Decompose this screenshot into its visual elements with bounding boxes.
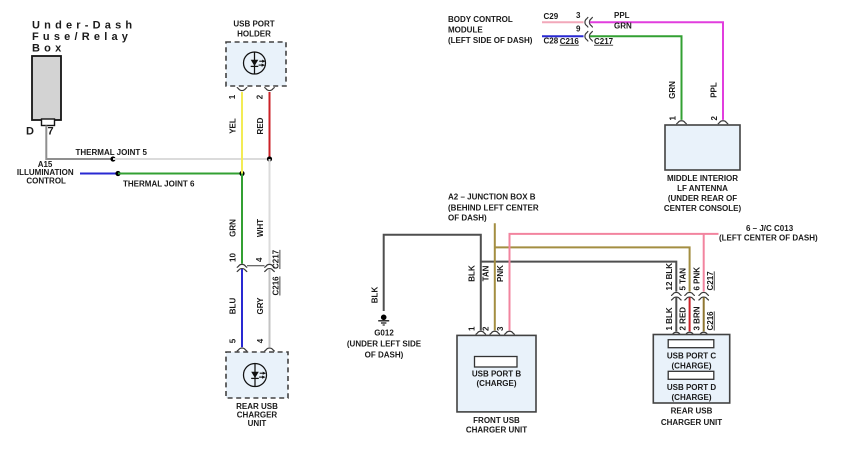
svg-text:12 BLK: 12 BLK <box>665 263 674 291</box>
svg-text:3: 3 <box>496 326 505 331</box>
svg-text:C216: C216 <box>272 276 281 296</box>
svg-text:(UNDER LEFT SIDE: (UNDER LEFT SIDE <box>347 340 422 349</box>
ground G012 <box>378 315 389 326</box>
node blue-green junction <box>115 171 120 176</box>
connector C217 terminal row2 <box>589 31 592 41</box>
node THERMAL JOINT 6 <box>123 171 245 189</box>
connector C216 terminal on blue wire <box>237 269 247 272</box>
wire PNK from J/C C013 <box>510 234 719 331</box>
label USB PORT B (CHARGE) <box>472 370 522 389</box>
pin 1 entry terminal antenna <box>677 121 687 124</box>
wire BLK branch to rear unit <box>481 262 677 292</box>
wire from fuse box D7 to thermal joint 5 (gray) <box>46 126 113 160</box>
connector C217 terminal on PNK <box>699 292 709 295</box>
svg-text:LF ANTENNA: LF ANTENNA <box>677 184 728 193</box>
svg-text:GRY: GRY <box>256 297 265 315</box>
svg-text:(BEHIND LEFT CENTER: (BEHIND LEFT CENTER <box>448 203 539 212</box>
svg-text:10: 10 <box>228 253 237 262</box>
svg-text:2: 2 <box>256 94 265 99</box>
pin 3 entry terminal rear unit <box>699 332 709 335</box>
svg-text:6 PNK: 6 PNK <box>693 267 702 291</box>
connector C216 terminal row2 <box>585 31 588 41</box>
svg-text:(CHARGE): (CHARGE) <box>477 379 517 388</box>
svg-text:THERMAL JOINT 5: THERMAL JOINT 5 <box>76 148 148 157</box>
svg-text:C216: C216 <box>706 311 715 331</box>
label 6 J/C C013 <box>719 224 818 243</box>
svg-text:BLU: BLU <box>229 298 238 315</box>
svg-text:4: 4 <box>256 338 265 343</box>
svg-text:CHARGER UNIT: CHARGER UNIT <box>661 418 722 427</box>
front USB charger unit box <box>457 335 536 412</box>
svg-text:4: 4 <box>255 257 264 262</box>
USB port B symbol <box>475 357 518 368</box>
svg-text:(UNDER REAR OF: (UNDER REAR OF <box>668 194 737 203</box>
svg-text:2 RED: 2 RED <box>678 307 687 331</box>
svg-text:1: 1 <box>467 326 476 331</box>
svg-text:1: 1 <box>228 94 237 99</box>
svg-text:3: 3 <box>576 11 581 20</box>
svg-text:GRN: GRN <box>229 219 238 237</box>
label USB PORT HOLDER <box>233 20 274 39</box>
svg-text:USB PORT C: USB PORT C <box>667 351 717 360</box>
wire TAN branch to rear unit <box>495 247 690 291</box>
svg-text:(CHARGE): (CHARGE) <box>672 393 712 402</box>
svg-text:GRN: GRN <box>614 22 632 31</box>
wire PNK branch to rear unit <box>703 234 705 292</box>
svg-text:C216: C216 <box>560 37 580 46</box>
svg-text:3 BRN: 3 BRN <box>693 306 702 330</box>
svg-text:YEL: YEL <box>229 118 238 134</box>
svg-text:C217: C217 <box>706 271 715 291</box>
wire TAN from A2 junction box B <box>494 223 496 330</box>
label REAR USB CHARGER UNIT (left) <box>236 402 278 428</box>
USB port D symbol <box>668 371 714 379</box>
connector D7 of fuse box <box>26 119 55 138</box>
svg-text:7: 7 <box>48 126 54 138</box>
USB port C symbol <box>668 340 714 348</box>
wire BLU vertical to rear USB charger unit <box>241 269 243 347</box>
svg-text:Under-Dash: Under-Dash <box>32 19 136 31</box>
wire blue from BCM C28 <box>542 35 584 37</box>
pin 3 entry terminal front unit <box>505 331 515 334</box>
svg-text:C217: C217 <box>594 37 614 46</box>
svg-text:USB PORT B: USB PORT B <box>472 370 522 379</box>
svg-text:A2 – JUNCTION BOX B: A2 – JUNCTION BOX B <box>448 193 536 202</box>
wire YEL vertical <box>241 92 243 174</box>
connector C217 terminal on TAN <box>685 292 695 295</box>
svg-text:CHARGER UNIT: CHARGER UNIT <box>466 425 527 434</box>
LED symbol in rear USB charger unit <box>244 364 267 387</box>
svg-text:Box: Box <box>32 43 65 55</box>
wire BLK from ground G012 to front unit and rear unit <box>384 235 481 331</box>
node red wire to white wire <box>267 156 272 161</box>
svg-text:OF DASH): OF DASH) <box>365 351 404 360</box>
connector C217 terminal on BLK <box>672 292 682 295</box>
wire BRN lower to rear unit <box>703 298 705 332</box>
connector C216 terminal on RED <box>685 297 695 300</box>
pin 5 entry terminal <box>237 348 247 351</box>
node THERMAL JOINT 5 <box>76 148 148 162</box>
svg-text:5: 5 <box>229 338 238 343</box>
svg-text:1 BLK: 1 BLK <box>665 307 674 330</box>
label REAR USB CHARGER UNIT (right) <box>661 407 722 428</box>
svg-text:D: D <box>26 126 34 138</box>
label MIDDLE INTERIOR LF ANTENNA <box>664 174 742 213</box>
svg-text:BLK: BLK <box>468 265 477 282</box>
label USB PORT C (CHARGE) <box>667 351 717 370</box>
wire GRN vertical down to C217 <box>241 174 243 264</box>
svg-text:PPL: PPL <box>710 82 719 98</box>
rear USB charger unit (right) box <box>653 335 729 404</box>
pin 1 exit terminal of USB port holder <box>237 88 247 91</box>
svg-text:(CHARGE): (CHARGE) <box>672 361 712 370</box>
svg-text:Fuse/Relay: Fuse/Relay <box>32 31 132 43</box>
svg-text:C29: C29 <box>544 12 559 21</box>
svg-text:6 – J/C C013: 6 – J/C C013 <box>746 224 794 233</box>
svg-text:(LEFT CENTER OF DASH): (LEFT CENTER OF DASH) <box>719 234 818 243</box>
wire pink from BCM C29 <box>542 21 584 23</box>
USB port holder box <box>226 42 286 86</box>
connector C217 terminal on green wire <box>237 264 247 267</box>
svg-text:PPL: PPL <box>614 11 630 20</box>
svg-text:WHT: WHT <box>256 219 265 237</box>
svg-text:PNK: PNK <box>496 265 505 282</box>
wire RED vertical <box>269 92 271 158</box>
pin 1 entry terminal front unit <box>476 331 486 334</box>
under-dash fuse/relay box <box>32 56 61 120</box>
svg-text:BODY CONTROL: BODY CONTROL <box>448 15 513 24</box>
label BODY CONTROL MODULE <box>448 15 533 45</box>
wire GRY vertical to rear USB charger unit <box>269 269 271 347</box>
connector C217 terminal row1 <box>589 17 592 27</box>
wire BLU from A15 illumination control <box>80 173 118 175</box>
wire GRN horizontal to thermal joint 6 <box>118 173 242 175</box>
wire PPL from C217 to antenna <box>590 22 723 120</box>
svg-text:9: 9 <box>576 25 581 34</box>
wire BLK lower to rear unit <box>675 298 677 332</box>
wire GRN from C217 to antenna <box>590 36 682 120</box>
svg-text:2: 2 <box>481 326 490 331</box>
svg-text:C28: C28 <box>544 37 559 46</box>
wire WHT horizontal from thermal joint 5 to red-wire node <box>113 158 270 160</box>
svg-text:MODULE: MODULE <box>448 26 483 35</box>
svg-text:2: 2 <box>710 116 719 121</box>
connector C217 terminal on white wire <box>265 264 275 267</box>
connector C216 terminal on BLK <box>672 297 682 300</box>
svg-text:C217: C217 <box>272 249 281 269</box>
wire RED lower to rear unit <box>689 298 691 332</box>
svg-text:CONTROL: CONTROL <box>26 176 66 185</box>
pin 2 exit terminal of USB port holder <box>265 88 275 91</box>
svg-text:UNIT: UNIT <box>248 419 267 428</box>
svg-text:5 TAN: 5 TAN <box>678 268 687 291</box>
connector link line C217 <box>247 265 265 267</box>
pin 1 entry terminal rear unit <box>672 332 682 335</box>
svg-text:OF DASH): OF DASH) <box>448 214 487 223</box>
LED symbol in USB port holder <box>244 52 266 74</box>
label A2 JUNCTION BOX B <box>448 193 539 223</box>
svg-text:TAN: TAN <box>482 265 491 281</box>
wire WHT vertical down to C217 <box>269 159 271 264</box>
pin 2 entry terminal front unit <box>490 331 500 334</box>
middle interior LF antenna box <box>665 125 740 170</box>
connector C216 terminal on gray wire <box>265 269 275 272</box>
label G012 (UNDER LEFT SIDE OF DASH) <box>347 329 422 360</box>
svg-text:CENTER CONSOLE): CENTER CONSOLE) <box>664 204 742 213</box>
label FRONT USB CHARGER UNIT <box>466 416 527 435</box>
label USB PORT D (CHARGE) <box>667 383 717 402</box>
label A15 ILLUMINATION CONTROL <box>17 160 74 185</box>
pin 4 entry terminal <box>265 348 275 351</box>
svg-text:GRN: GRN <box>668 81 677 99</box>
pin 2 entry terminal rear unit <box>685 332 695 335</box>
rear USB charger unit (left) box <box>226 352 288 398</box>
svg-text:RED: RED <box>256 117 265 134</box>
connector C216 terminal row1 <box>585 17 588 27</box>
pin 2 entry terminal antenna <box>718 121 728 124</box>
svg-text:HOLDER: HOLDER <box>237 30 271 39</box>
svg-text:USB PORT: USB PORT <box>233 20 274 29</box>
svg-text:USB PORT D: USB PORT D <box>667 383 717 392</box>
svg-text:MIDDLE INTERIOR: MIDDLE INTERIOR <box>667 174 738 183</box>
svg-text:REAR USB: REAR USB <box>671 407 713 416</box>
svg-text:FRONT USB: FRONT USB <box>473 416 520 425</box>
svg-text:THERMAL JOINT 6: THERMAL JOINT 6 <box>123 180 195 189</box>
connector C216 terminal on BRN <box>699 297 709 300</box>
svg-text:1: 1 <box>669 116 678 121</box>
svg-text:G012: G012 <box>374 329 394 338</box>
svg-text:BLK: BLK <box>370 287 379 304</box>
label Under-Dash Fuse/Relay Box <box>32 19 136 54</box>
svg-text:(LEFT SIDE OF DASH): (LEFT SIDE OF DASH) <box>448 36 533 45</box>
